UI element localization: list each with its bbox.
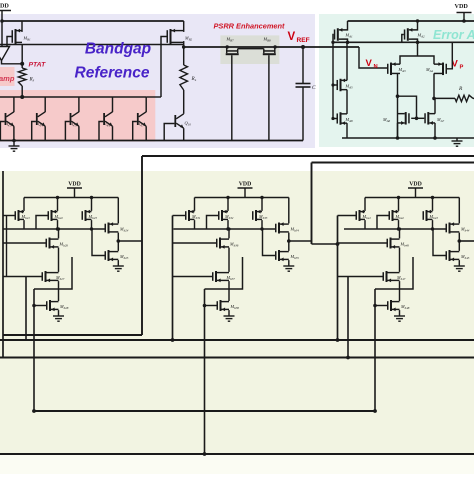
wire Q10 emitter to ground rail — [183, 128, 185, 140]
svg-text:Mb45: Mb45 — [460, 254, 470, 260]
svg-text:Mb31: Mb31 — [191, 214, 201, 220]
svg-text:Mb46: Mb46 — [400, 242, 410, 248]
wire Mb27 gate — [3, 276, 42, 278]
wire Mb28 gate node — [34, 305, 46, 307]
drain bus stage b4 — [344, 228, 446, 230]
transistor Mb47 — [383, 272, 385, 281]
svg-text:Error Am: Error Am — [433, 28, 474, 42]
BJT Q7 — [137, 113, 139, 125]
ground error amp — [456, 138, 458, 141]
L wire stage b3 — [205, 257, 243, 289]
resistor R — [434, 97, 455, 99]
chain wire Mb36 to Mb37 — [228, 248, 230, 272]
wire VDD to rail — [1, 11, 3, 22]
svg-text:R4: R4 — [191, 76, 197, 82]
transistor Mb42 — [389, 211, 391, 220]
resistor R4 — [180, 65, 188, 90]
svg-text:Mb41: Mb41 — [362, 214, 372, 220]
wire MB1 drain stub — [15, 41, 17, 44]
svg-text:MA5: MA5 — [345, 84, 354, 90]
wire Mb41 gate — [338, 215, 356, 217]
error amp second rail — [333, 41, 474, 43]
wire MB1 gate — [7, 37, 12, 47]
transistor Mb27 — [42, 272, 44, 281]
transistor Mb44 — [446, 224, 448, 233]
output stage beige background — [0, 171, 474, 455]
svg-text:MA7: MA7 — [436, 117, 445, 123]
transistor MA2 — [404, 29, 406, 39]
transistor Mb21 — [15, 211, 17, 220]
wire Mb35 gate — [263, 229, 276, 256]
wire Mb38 gate node — [205, 305, 217, 307]
wire bus y340 — [0, 339, 474, 341]
wire MA4 drain down — [433, 73, 435, 98]
transistor Mb24 — [105, 224, 107, 233]
svg-text:MB8: MB8 — [263, 37, 272, 43]
transistor MA6 — [408, 113, 410, 123]
svg-text:Mb21: Mb21 — [21, 214, 31, 220]
wire MA4 gate to VP — [447, 42, 452, 69]
svg-text:PSRR Enhancement: PSRR Enhancement — [213, 22, 285, 31]
svg-text:Mb35: Mb35 — [290, 254, 300, 260]
transistor Mb33 — [252, 211, 254, 220]
svg-text:Mb28: Mb28 — [59, 304, 69, 310]
wire MB7 source up — [226, 46, 228, 48]
BJT Q6 — [103, 113, 105, 125]
wire MA2 source to rail — [412, 21, 418, 30]
chain wire Mb46 to Mb47 — [399, 248, 401, 272]
wire rail corner to Mb24 — [117, 198, 119, 224]
transistor Mb22 — [48, 211, 50, 220]
drain bus stage b2 — [3, 228, 105, 230]
transistor Mb26 — [46, 239, 48, 248]
mirror bus wire y44.5 — [0, 44, 184, 46]
node VREF — [301, 45, 305, 49]
wire left edge down — [1, 21, 3, 46]
svg-text:Reference: Reference — [75, 65, 150, 82]
wire MA7 source down — [434, 123, 436, 138]
transistor MA1 — [334, 29, 336, 39]
transistor MB7 — [227, 50, 238, 52]
wire Mb24 drain to output node — [117, 233, 119, 251]
node PTAT — [20, 62, 24, 66]
bandgap reference block background — [0, 14, 315, 148]
transistor Mb45 — [446, 251, 448, 260]
transistor MA5 — [337, 80, 339, 90]
svg-text:Mb26: Mb26 — [59, 242, 69, 248]
svg-text:REF: REF — [297, 37, 310, 44]
svg-text:N: N — [374, 64, 378, 70]
VREF wire — [184, 46, 359, 48]
error amplifier block background — [319, 14, 474, 147]
svg-text:MA1: MA1 — [345, 33, 354, 39]
svg-text:VDD: VDD — [68, 181, 81, 187]
wire MA1 source to rail — [342, 21, 348, 30]
wire MA6 source to rail — [397, 123, 399, 138]
transistor Mb35 — [275, 251, 277, 260]
wire Mb42 gate diode — [377, 216, 389, 230]
ground Mb38 — [228, 310, 230, 316]
BJT Q5 — [70, 113, 72, 125]
svg-text:Mb36: Mb36 — [229, 242, 239, 248]
svg-text:MA4: MA4 — [425, 67, 434, 73]
svg-text:Mb22: Mb22 — [54, 214, 64, 220]
svg-text:Mb38: Mb38 — [230, 304, 240, 310]
transistor Mb32 — [218, 211, 220, 220]
wire capacitor to ground rail — [302, 87, 304, 141]
wire Mb46 gate — [338, 242, 387, 244]
ground Mb35 — [288, 260, 290, 266]
wire MB2 gate — [161, 37, 167, 98]
transistor Mb38 — [217, 301, 219, 310]
svg-text:Mb37: Mb37 — [226, 275, 236, 281]
bandgap top rail — [2, 20, 184, 22]
wire stage3 output to edge — [459, 240, 474, 242]
wire MA2 drain — [412, 39, 418, 42]
ground Mb48 — [399, 310, 401, 316]
svg-text:Q4: Q4 — [38, 122, 43, 128]
BJT Q3 — [5, 113, 7, 125]
rail stage b4 — [365, 197, 459, 199]
svg-text:Mb43: Mb43 — [429, 214, 439, 220]
rail stage b2 — [24, 197, 118, 199]
transistor Mb41 — [356, 211, 358, 220]
wire stage3 input vertical — [337, 216, 339, 341]
wire VREF to VN — [359, 47, 387, 68]
svg-text:Mb32: Mb32 — [224, 214, 234, 220]
svg-text:V: V — [366, 58, 373, 69]
svg-text:R: R — [458, 86, 463, 92]
wire MA3 source to tail — [400, 56, 418, 64]
wire stage1 output branch — [118, 240, 142, 242]
wire Mb46 drain up — [399, 229, 401, 238]
transistor Mb31 — [185, 211, 187, 220]
resistor R3 — [21, 64, 23, 68]
transistor MB2 — [167, 30, 169, 43]
wire Mb36 drain up — [228, 229, 230, 238]
error amp ground rail — [342, 137, 474, 139]
PSRR enhancement gray box — [220, 35, 279, 64]
transistor Mb28 — [46, 301, 48, 310]
transistor Mb34 — [275, 224, 277, 233]
ground Mb25 — [117, 260, 119, 266]
wire feedback bus 1 — [142, 155, 474, 157]
tail wire — [417, 42, 419, 56]
svg-text:Mb34: Mb34 — [290, 227, 300, 233]
wire feedback bus 2 — [312, 162, 474, 164]
svg-text:C: C — [312, 85, 316, 91]
ground bandgap — [13, 141, 15, 147]
wire MA4 source to tail — [418, 56, 435, 64]
wire MB8 drain down — [268, 55, 270, 140]
wire MA2 gate — [402, 35, 404, 43]
wire MB7 drain down — [231, 55, 233, 140]
svg-text:MA8: MA8 — [345, 117, 354, 123]
transistor Mb25 — [105, 251, 107, 260]
MA6-MA7 gate tie — [411, 117, 424, 119]
wire MA8 source to rail — [346, 123, 348, 138]
wire Mb21 gate — [3, 215, 15, 217]
wire Q10 base — [164, 124, 174, 141]
transistor Mb36 — [216, 239, 218, 248]
svg-text:Bandgap: Bandgap — [85, 41, 151, 58]
wire rail corner to Mb34 — [288, 198, 290, 224]
wire Mb31 gate — [173, 215, 186, 217]
svg-text:Mb42: Mb42 — [395, 214, 405, 220]
wire MA1 gate diode — [332, 35, 335, 43]
transistor Mb37 — [212, 272, 214, 281]
wire MA3 drain down — [397, 73, 399, 138]
wire Mb34 drain to output node — [288, 233, 290, 251]
wire op-amp output to PTAT node — [2, 61, 23, 64]
op-amp U1 — [0, 47, 10, 61]
svg-text:Mb25: Mb25 — [119, 254, 129, 260]
wire Mb47 source down — [399, 281, 401, 301]
wire MA5 drain up — [346, 42, 348, 80]
BJT Q4 — [36, 113, 38, 125]
wire VREF down to capacitor — [302, 47, 304, 84]
wire MA5 source down — [346, 90, 348, 114]
wire MA1 drain — [342, 39, 348, 42]
svg-text:Mb27: Mb27 — [55, 275, 65, 281]
svg-text:MA3: MA3 — [398, 67, 407, 73]
svg-text:PTAT: PTAT — [29, 62, 47, 69]
svg-text:MA2: MA2 — [417, 33, 426, 39]
svg-text:Q3: Q3 — [7, 122, 12, 128]
startup pink box — [0, 67, 15, 86]
wire stage2 input vertical — [172, 216, 174, 341]
wire MA7 drain up — [434, 98, 436, 113]
rail stage b3 — [195, 197, 289, 199]
wire Mb48 gate node — [375, 305, 387, 307]
L wire stage b2 — [34, 257, 72, 289]
svg-text:MB2: MB2 — [184, 36, 193, 42]
wire Mb37 gate — [173, 276, 213, 278]
svg-text:Q10: Q10 — [185, 121, 192, 127]
svg-text:MB7: MB7 — [226, 37, 235, 43]
wire stage1 gate-bias vertical — [25, 277, 27, 341]
transistor Mb43 — [423, 211, 425, 220]
svg-text:P: P — [460, 65, 464, 71]
svg-text:VDD: VDD — [409, 181, 422, 187]
capacitor C — [296, 83, 311, 85]
wire Mb26 gate — [3, 242, 46, 244]
wire Mb28 gate vertical — [33, 289, 35, 411]
wire stage2 output vertical — [311, 163, 313, 245]
wire Mb32 gate diode — [207, 216, 219, 230]
transistor MB1 — [12, 30, 14, 43]
svg-text:MA6: MA6 — [382, 117, 391, 123]
wire bus y454 — [0, 453, 474, 455]
svg-text:Q5: Q5 — [72, 122, 77, 128]
wire Mb38 gate vertical — [204, 289, 206, 454]
transistor Mb46 — [387, 239, 389, 248]
L wire stage b4 — [375, 257, 413, 289]
wire VDD to rail — [463, 13, 465, 22]
bandgap ground rail — [0, 140, 303, 142]
svg-text:Mb47: Mb47 — [396, 275, 406, 281]
svg-text:Mb33: Mb33 — [258, 214, 268, 220]
drain bus stage b3 — [174, 228, 276, 230]
wire MB7-MB8 gate tie — [238, 48, 264, 50]
wire x348 vertical — [347, 277, 349, 358]
wire bus y411 — [34, 410, 375, 412]
left bias chain wire — [332, 42, 334, 118]
svg-text:V: V — [288, 31, 296, 43]
BJT Q10 — [174, 115, 176, 127]
chain wire Mb26 to Mb27 — [58, 248, 60, 272]
svg-text:Mb24: Mb24 — [119, 227, 129, 233]
svg-text:VDD: VDD — [455, 3, 469, 10]
wire Mb27 source down — [58, 281, 60, 301]
transistor Mb23 — [82, 211, 84, 220]
wire left second vertical — [6, 216, 8, 277]
wire bus y335 — [3, 334, 142, 336]
transistor Mb48 — [387, 301, 389, 310]
wire MB2 drain down — [183, 41, 185, 65]
svg-text:Mb23: Mb23 — [88, 214, 98, 220]
cross wire to MA6-MA7 gates — [398, 96, 417, 118]
wire MB1 source to rail — [21, 21, 23, 32]
transistor MB8 — [264, 50, 275, 52]
wire stage2 output branch — [289, 240, 312, 242]
svg-text:VDD: VDD — [239, 181, 252, 187]
svg-text:Q7: Q7 — [139, 122, 144, 128]
wire MB2-column to PTAT node — [21, 45, 23, 64]
svg-text:Mb44: Mb44 — [460, 227, 470, 233]
wire left edge vertical — [2, 171, 4, 358]
ground Mb45 — [458, 260, 460, 266]
wire stage2 to stage3 input — [312, 243, 338, 245]
wire Mb26 drain up — [58, 229, 60, 238]
transistor MA3 — [387, 64, 389, 74]
BJT collector bus — [0, 96, 146, 98]
wire Mb48 gate vertical — [374, 289, 376, 411]
svg-text:R3: R3 — [29, 77, 35, 83]
transistor MA7 — [424, 113, 426, 123]
wire Mb37 source down — [228, 281, 230, 301]
ground Mb28 — [58, 310, 60, 316]
wire Mb36 gate — [173, 242, 217, 244]
wire Mb45 gate — [433, 229, 446, 256]
transistor MA8 — [337, 113, 339, 123]
svg-text:Mb48: Mb48 — [400, 304, 410, 310]
wire Mb47 gate — [338, 276, 383, 278]
wire Mb44 drain to output node — [458, 233, 460, 251]
svg-text:Q6: Q6 — [105, 122, 110, 128]
transistor MA4 — [446, 64, 448, 74]
wire rail corner to Mb44 — [458, 198, 460, 224]
BJT array pink box — [0, 90, 155, 142]
wire Mb25 gate — [92, 229, 105, 256]
wire MB2 source to rail — [183, 21, 185, 32]
error amp top rail — [348, 20, 474, 22]
svg-text:MB1: MB1 — [23, 36, 32, 42]
wire Mb22 gate diode — [36, 216, 48, 230]
svg-text:VDD: VDD — [0, 3, 9, 10]
svg-text:amp: amp — [0, 74, 15, 83]
wire stage1 output vertical — [141, 156, 143, 335]
node R3 to BJT bus — [20, 95, 24, 99]
wire bus y357 — [0, 357, 474, 359]
